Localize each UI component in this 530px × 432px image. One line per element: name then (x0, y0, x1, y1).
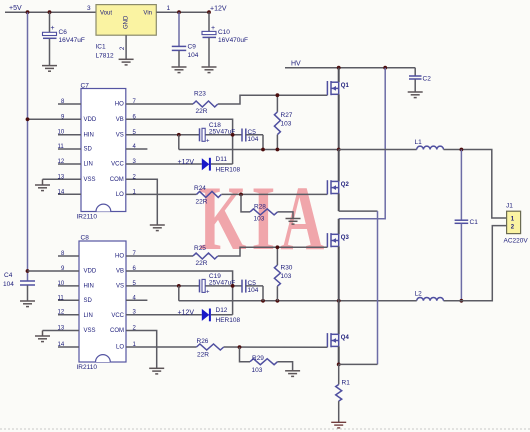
svg-text:C5: C5 (248, 129, 257, 136)
svg-text:104: 104 (188, 52, 199, 59)
svg-text:C6: C6 (59, 29, 68, 36)
svg-text:L7812: L7812 (96, 53, 114, 60)
svg-text:VSS: VSS (84, 328, 96, 334)
svg-text:16V470uF: 16V470uF (218, 37, 248, 44)
wire +5V bus vertical (27, 12, 29, 281)
svg-text:14: 14 (58, 189, 65, 195)
svg-text:L1: L1 (415, 139, 423, 146)
svg-text:SD: SD (84, 298, 93, 304)
svg-text:13: 13 (58, 174, 65, 180)
capacitor C5 104 (242, 129, 263, 143)
wire VS-B drop to phase B (178, 286, 180, 301)
pin 12 stub C8 (58, 314, 79, 316)
node junction R30 top (276, 245, 280, 249)
svg-text:Q2: Q2 (341, 182, 350, 188)
wire HV branch to Q3 drain (339, 68, 386, 219)
ground at VSS C8 (35, 331, 50, 342)
ground under C9 (172, 67, 187, 73)
svg-text:+: + (206, 139, 210, 145)
ground under IC1 (119, 59, 134, 65)
pin 13 VSS wire to ground (43, 178, 82, 180)
svg-text:103: 103 (281, 273, 292, 280)
wire R25 to Q3 gate (218, 247, 328, 256)
capacitor C9 (172, 12, 199, 67)
pin 8 stub C8 (58, 255, 79, 257)
pin 5 VS wire C8 (126, 285, 199, 287)
transistor Q4 (327, 301, 349, 365)
svg-text:22R: 22R (197, 352, 209, 359)
svg-text:104: 104 (248, 136, 259, 143)
wire phase B row (179, 300, 417, 302)
ground under C10 (202, 67, 217, 73)
svg-text:C2: C2 (423, 76, 432, 83)
svg-text:R28: R28 (254, 204, 266, 211)
svg-text:Q1: Q1 (341, 83, 350, 89)
svg-text:11: 11 (58, 295, 65, 301)
wire R26 to Q4 gate (224, 346, 328, 348)
svg-text:HIN: HIN (84, 284, 94, 290)
svg-text:VS: VS (116, 132, 124, 138)
svg-text:C10: C10 (218, 29, 230, 36)
svg-text:22R: 22R (196, 199, 208, 206)
node junction R27 bottom (276, 148, 280, 152)
node junction R29 tap (238, 345, 242, 349)
wire L1 to J1 (444, 150, 507, 219)
wire Q4 source to sense rail (339, 363, 378, 365)
svg-text:R27: R27 (281, 112, 293, 119)
wire J1 pin2 to L2 (444, 226, 507, 301)
pin 1 LO wire C7 (126, 193, 197, 195)
svg-text:C5: C5 (248, 280, 257, 287)
transistor Q3 (327, 219, 349, 301)
pin 10 stub C8 (58, 285, 79, 287)
node junction phase B (337, 299, 341, 303)
capacitor C6 (43, 12, 85, 65)
pin 6 VB wire C8 (126, 271, 233, 315)
pin 14 stub C7 (58, 193, 81, 195)
svg-text:HV: HV (291, 61, 301, 68)
resistor R25 22R (193, 245, 218, 267)
wire R24 to Q2 gate (221, 193, 327, 195)
svg-text:LIN: LIN (84, 162, 93, 168)
pin 5 VS wire C7 (126, 134, 199, 136)
ground at R28 (286, 219, 301, 225)
svg-text:C1: C1 (470, 219, 479, 226)
capacitor C1 (455, 150, 479, 301)
wire C5 drop to phase B (262, 286, 264, 301)
svg-text:VDD: VDD (84, 117, 97, 123)
pin 14 stub C8 (58, 346, 79, 348)
pin 11 stub C8 (58, 299, 79, 301)
node junction +5V bus (26, 10, 30, 14)
capacitor C19 25V47uF (200, 273, 243, 296)
wire sense rail vertical (377, 211, 379, 364)
svg-text:VDD: VDD (84, 269, 97, 275)
pin 7 HO wire C8 (126, 255, 193, 257)
svg-text:VB: VB (116, 269, 124, 275)
svg-text:11: 11 (58, 144, 65, 150)
node junction R28 tap (239, 193, 243, 197)
svg-text:R26: R26 (197, 338, 209, 345)
svg-text:COM: COM (110, 328, 124, 334)
diode D11 HER108 (202, 156, 241, 174)
svg-text:HO: HO (115, 102, 124, 108)
node junction C10 / +12V (207, 10, 211, 14)
pin 3 VCC wire C7 (126, 163, 202, 165)
node junction C9 (177, 10, 181, 14)
node junction C5 drop on phase B (261, 299, 265, 303)
resistor R27 103 (274, 95, 292, 149)
svg-text:VSS: VSS (84, 177, 96, 183)
ground under C2 (408, 92, 423, 98)
node junction VB-caps B (231, 284, 235, 288)
wire C5 drop to phase A (262, 135, 264, 150)
svg-text:IC1: IC1 (96, 44, 107, 51)
svg-text:VB: VB (116, 117, 124, 123)
pin 7 HO wire C7 (126, 103, 193, 105)
pin 4 stub C8 (126, 299, 147, 301)
svg-text:+12V: +12V (178, 159, 195, 166)
svg-text:12: 12 (58, 310, 65, 316)
svg-text:HER108: HER108 (216, 167, 241, 174)
svg-text:LO: LO (116, 345, 124, 351)
svg-text:R29: R29 (252, 355, 264, 362)
svg-text:IR2110: IR2110 (77, 364, 98, 371)
pin 9 wire VDD from +5V bus C8 (28, 270, 80, 272)
svg-text:C8: C8 (81, 235, 90, 242)
svg-text:Vin: Vin (143, 11, 152, 17)
svg-text:R1: R1 (342, 380, 351, 387)
pin 2 GND lead of IC1 (125, 35, 127, 59)
node junction C6 (48, 10, 52, 14)
wire VS drop to phase A (178, 135, 180, 150)
node junction HV branch (383, 66, 387, 70)
wire phase A row (179, 149, 339, 151)
pin 13 VSS wire to ground C8 (43, 330, 80, 332)
svg-text:C7: C7 (81, 83, 90, 90)
bottom dotted border (0, 428, 530, 430)
wire HV rail (285, 67, 415, 69)
pin 10 stub C7 (58, 134, 81, 136)
node junction R27 top (276, 93, 280, 97)
svg-text:2: 2 (120, 46, 126, 50)
svg-text:+12V: +12V (210, 5, 227, 12)
svg-text:HO: HO (115, 254, 124, 260)
connector J1 AC220V (504, 203, 529, 245)
ground at COM C8 (149, 368, 164, 374)
svg-text:22R: 22R (196, 260, 208, 267)
svg-text:D11: D11 (216, 156, 228, 163)
pin 1 LO wire C8 (126, 346, 197, 348)
svg-text:VS: VS (116, 284, 124, 290)
transistor Q2 (327, 150, 349, 212)
pin 6 VB wire C7 (126, 119, 233, 164)
ground under C6 (42, 66, 57, 72)
diode D12 HER108 (202, 307, 241, 324)
ground under C4 (20, 301, 35, 307)
node junction VB-caps (231, 133, 235, 137)
capacitor C4 (3, 269, 35, 301)
wire R23 to Q1 gate (218, 95, 328, 104)
resistor R23 22R (193, 91, 218, 116)
svg-text:LO: LO (116, 192, 124, 198)
svg-text:VCC: VCC (111, 313, 124, 319)
resistor R26 22R (197, 338, 224, 359)
svg-text:J1: J1 (506, 203, 513, 210)
svg-text:Vout: Vout (100, 11, 112, 17)
svg-text:Q3: Q3 (341, 235, 350, 241)
node junction C5 drop on phase A (261, 148, 265, 152)
capacitor C5 104 leg B (242, 280, 263, 294)
ground at R29 (285, 371, 300, 377)
inductor L2 (415, 290, 444, 301)
svg-text:GND: GND (124, 15, 130, 29)
pin 12 stub C7 (58, 163, 81, 165)
svg-text:103: 103 (254, 216, 265, 223)
node junction phase A (337, 148, 341, 152)
svg-text:D12: D12 (216, 307, 228, 314)
svg-text:LIN: LIN (84, 313, 93, 319)
svg-text:10: 10 (58, 130, 65, 136)
wire +5V rail top (5, 11, 96, 13)
node junction R30 bottom (276, 299, 280, 303)
ground under R1 (331, 422, 346, 428)
pin 2 COM wire C7 (126, 179, 158, 225)
svg-text:R24: R24 (194, 185, 206, 192)
svg-text:AC220V: AC220V (504, 238, 529, 245)
svg-text:13: 13 (58, 326, 65, 332)
node junction Q4 source / R1 (337, 363, 341, 367)
node junction VS-B drop (177, 284, 181, 288)
svg-text:14: 14 (58, 342, 65, 348)
regulator IC1 L7812 (96, 5, 157, 60)
pin 9 wire VDD from +5V bus (28, 118, 82, 120)
pin 2 COM wire C8 (126, 331, 157, 369)
transistor Q1 (327, 68, 349, 150)
wire Q2 source to sense rail (339, 210, 378, 212)
svg-text:103: 103 (252, 367, 263, 374)
capacitor C10 (202, 12, 248, 67)
svg-text:R23: R23 (194, 91, 206, 98)
capacitor C18 25V47uF (200, 122, 243, 145)
wire Vin to +12V (156, 11, 209, 13)
svg-text:3: 3 (87, 5, 91, 12)
svg-text:1: 1 (167, 5, 171, 12)
resistor R1 (336, 364, 350, 422)
svg-text:C4: C4 (4, 272, 13, 279)
pin 11 stub C7 (58, 148, 81, 150)
svg-text:R30: R30 (281, 265, 293, 272)
inductor L1 (415, 139, 444, 150)
svg-text:22R: 22R (196, 108, 208, 115)
node junction C1 bottom (460, 299, 464, 303)
svg-text:L2: L2 (415, 290, 423, 297)
ground at VSS C7 (35, 179, 50, 190)
svg-text:Q4: Q4 (341, 335, 350, 341)
svg-text:HIN: HIN (84, 132, 94, 138)
svg-text:SD: SD (84, 147, 93, 153)
IC U1 IR2110 (C7) (77, 83, 126, 221)
wire phase A to L1 (339, 149, 417, 151)
resistor R29 103 (240, 347, 293, 374)
node junction C1 top (460, 148, 464, 152)
node junction Q1 drain on HV (337, 66, 341, 70)
svg-text:103: 103 (281, 121, 292, 128)
capacitor C2 (409, 68, 431, 92)
pin 4 stub C7 (126, 148, 148, 150)
svg-text:+: + (51, 25, 55, 32)
svg-text:10: 10 (58, 281, 65, 287)
ground at COM C7 (150, 225, 165, 231)
svg-text:+: + (206, 290, 210, 296)
svg-text:IR2110: IR2110 (77, 214, 98, 221)
svg-text:12: 12 (58, 159, 65, 165)
svg-text:+5V: +5V (9, 5, 22, 12)
svg-text:104: 104 (248, 287, 259, 294)
svg-text:+: + (211, 25, 215, 32)
node junction VS drop (177, 133, 181, 137)
svg-text:VCC: VCC (111, 162, 124, 168)
svg-text:R25: R25 (194, 245, 206, 252)
svg-text:104: 104 (3, 281, 14, 288)
pin 8 stub C7 (58, 103, 81, 105)
resistor R28 103 (241, 194, 293, 222)
resistor R30 103 (274, 247, 292, 300)
node junction VDD bus (26, 117, 30, 121)
svg-text:COM: COM (110, 177, 124, 183)
resistor R24 22R (194, 185, 221, 206)
svg-text:C9: C9 (188, 44, 197, 51)
svg-text:HER108: HER108 (216, 317, 241, 324)
pin 3 VCC wire C8 (126, 314, 202, 316)
IC U2 IR2110 (C8) (77, 235, 127, 372)
svg-text:16V47uF: 16V47uF (59, 37, 85, 44)
svg-text:+12V: +12V (178, 310, 195, 317)
